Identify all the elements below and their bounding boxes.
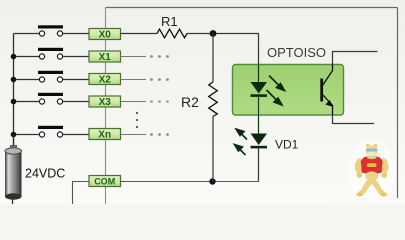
switch S1: [38, 48, 63, 59]
node: bus junction X3: [11, 99, 17, 105]
feet: [356, 193, 363, 197]
resistor R1: [157, 29, 187, 38]
wire: X1 row right stub: [121, 56, 147, 58]
wire: COM left drop: [73, 182, 90, 205]
dots after X2: [150, 78, 169, 81]
wire: X3 row left: [14, 101, 40, 103]
switch Sn: [38, 126, 63, 137]
muzzle: [368, 152, 375, 156]
wire: left supply bus vertical: [13, 34, 15, 148]
battery BT1 24VDC: [5, 135, 22, 205]
terminal X0: [89, 29, 121, 41]
opto LED emission arrows: [267, 76, 285, 106]
svg-text:X3: X3: [99, 97, 112, 108]
node: bus junction X1: [11, 54, 17, 60]
wire: emitter lead out bottom: [333, 115, 375, 124]
diode VD1: [251, 115, 268, 182]
belly: [365, 171, 378, 180]
wire: R2 top lead: [212, 34, 214, 83]
svg-text:X1: X1: [99, 52, 112, 63]
optocoupler U1 box: [233, 65, 344, 116]
dots after X3: [150, 100, 169, 103]
vertical ellipsis between X3 and Xn: [136, 112, 138, 128]
terminal X3: [89, 96, 121, 108]
wire: X0 switch to terminal: [63, 33, 89, 35]
terminal X1: [89, 51, 121, 63]
VD1 emission arrows: [235, 129, 248, 155]
svg-text:R2: R2: [181, 94, 199, 110]
right arm: [378, 157, 389, 173]
dots after Xn: [150, 133, 169, 136]
wire: Xn switch to terminal: [63, 134, 89, 136]
resistor R2: [209, 82, 218, 117]
head: [366, 145, 378, 156]
wire: X2 switch to terminal: [63, 79, 89, 81]
dots after X1: [150, 55, 169, 58]
svg-text:············: ············: [331, 198, 369, 204]
svg-text:R1: R1: [161, 14, 178, 29]
left arm: [354, 157, 365, 173]
wire: X0 terminal to R1: [121, 33, 158, 35]
right leg: [370, 178, 385, 195]
wire: X3 switch to terminal: [63, 101, 89, 103]
watermark bear mascot: [348, 140, 396, 200]
shirt: [361, 156, 383, 174]
wire: COM to VD1 bottom rail: [121, 181, 259, 183]
node: bus junction Xn: [11, 132, 17, 138]
glasses: [366, 148, 377, 151]
wire: R1 to opto branch: [187, 34, 259, 65]
wire: X1 row left: [14, 56, 40, 58]
node: bottom junction R2/COM: [209, 178, 215, 184]
wire: PLC terminal column vertical: [105, 8, 107, 205]
opto phototransistor Q1: [320, 65, 333, 116]
wire: X2 row left: [14, 79, 40, 81]
wire: top rail from PLC terminal column to right border: [106, 7, 398, 9]
terminal COM: [89, 176, 121, 187]
wire: X0 row left: [14, 33, 40, 35]
svg-text:X2: X2: [99, 75, 112, 86]
svg-text:X0: X0: [99, 30, 112, 41]
wire: X1 switch to terminal: [63, 56, 89, 58]
svg-text:VD1: VD1: [275, 138, 299, 152]
svg-text:24VDC: 24VDC: [25, 167, 65, 181]
wire: Xn row left: [14, 134, 40, 136]
node: bus junction X2: [11, 77, 17, 83]
wire: right border vertical: [397, 8, 399, 199]
ears: [366, 144, 369, 147]
wire: X2 row right stub: [121, 79, 147, 81]
switch S0: [38, 25, 63, 36]
switch S2: [38, 71, 63, 82]
wire: X3 row right stub: [121, 101, 147, 103]
opto LED D1: [251, 65, 268, 116]
wire: collector lead out top: [333, 52, 378, 65]
svg-text:COM: COM: [94, 177, 115, 187]
terminal Xn: [89, 129, 121, 141]
svg-text:Xn: Xn: [98, 130, 111, 141]
node: top junction R1/R2: [210, 30, 217, 37]
svg-text:OPTOISO: OPTOISO: [267, 45, 326, 60]
left leg: [358, 178, 373, 195]
fists: [356, 172, 362, 178]
wire: Xn row right stub: [121, 134, 147, 136]
terminal X2: [89, 74, 121, 86]
wire: R2 bottom lead: [212, 117, 214, 182]
switch S3: [38, 93, 63, 104]
